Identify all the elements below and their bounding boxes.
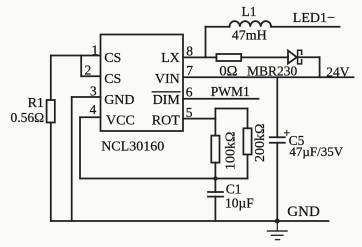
svg-text:8: 8 [186, 43, 193, 58]
wire pin2 CS horizontal [81, 75, 100, 77]
svg-text:MBR230: MBR230 [247, 64, 298, 79]
svg-text:DIM: DIM [153, 93, 181, 108]
svg-text:3: 3 [90, 84, 97, 99]
wire top rail left of L1 [206, 26, 230, 28]
wire 0 ohm to diode anode [241, 56, 288, 58]
svg-text:NCL30160: NCL30160 [101, 140, 164, 155]
svg-text:C1: C1 [226, 182, 242, 197]
svg-text:ROT: ROT [152, 113, 180, 128]
capacitor C5 plates [270, 136, 285, 138]
svg-text:4: 4 [89, 102, 96, 117]
svg-text:2: 2 [84, 63, 91, 78]
svg-text:47µF/35V: 47µF/35V [289, 144, 343, 159]
wire R1 bottom to ground rail [50, 123, 52, 222]
junction VCC node dot [213, 176, 217, 180]
resistor R2 100k body [211, 136, 219, 163]
svg-text:CS: CS [104, 51, 121, 66]
diode D1 MBR230 schottky bar [298, 50, 302, 64]
svg-text:VCC: VCC [106, 113, 135, 128]
wire pin6 DIM stub PWM1 [183, 98, 259, 100]
svg-text:L1: L1 [242, 4, 257, 19]
svg-text:0Ω: 0Ω [219, 63, 237, 79]
svg-text:5: 5 [186, 105, 193, 120]
wire 200k bottom vertical [247, 155, 249, 179]
svg-text:100kΩ: 100kΩ [223, 132, 238, 170]
wire pin7 VIN rail to 24V [183, 76, 354, 78]
capacitor C1 plates [208, 191, 223, 193]
svg-text:GND: GND [104, 93, 134, 108]
diode D1 MBR230 triangle [288, 51, 297, 64]
wire 100k top vertical [214, 109, 216, 136]
wire C5 bottom lead [276, 143, 278, 221]
wire pin5 ROT stub [183, 118, 215, 120]
wire LX vertical to top rail [205, 27, 207, 58]
wire pin1 CS to node A [51, 55, 101, 57]
svg-text:10µF: 10µF [225, 195, 254, 210]
resistor R3 200k body [243, 128, 251, 154]
wire C1 bottom lead [214, 197, 216, 221]
svg-text:0.56Ω: 0.56Ω [11, 110, 45, 125]
wire diode cathode to 24V corner [298, 56, 320, 58]
resistor 0 ohm body [216, 54, 241, 61]
wire pin4 VCC vertical [79, 117, 81, 178]
svg-text:47mH: 47mH [232, 28, 267, 43]
wire pin8 LX stub [183, 56, 216, 58]
wire pin4 VCC horizontal [80, 116, 101, 118]
wire pin3 GND horizontal [72, 96, 101, 98]
svg-text:R1: R1 [28, 96, 44, 111]
wire node A vertical to R1 [50, 56, 52, 101]
svg-text:24V: 24V [326, 64, 350, 79]
wire top rail to LED1- [271, 26, 339, 28]
wire pin2 CS tie vertical [80, 56, 82, 77]
svg-text:6: 6 [186, 84, 193, 99]
svg-text:LED1−: LED1− [293, 11, 335, 26]
svg-text:VIN: VIN [155, 72, 180, 87]
inductor L1 humps [230, 21, 272, 27]
wire 24V corner vertical [319, 57, 321, 77]
svg-text:7: 7 [186, 63, 193, 78]
wire 100k bottom vertical [214, 163, 216, 179]
resistor R1 body [47, 100, 55, 123]
wire pin3 GND vertical to ground rail [71, 97, 73, 221]
wire ground rail bottom [51, 220, 329, 222]
overline DIM pin6 [152, 91, 180, 93]
svg-text:200kΩ: 200kΩ [253, 124, 268, 162]
svg-text:PWM1: PWM1 [211, 84, 250, 99]
ground symbol [276, 221, 278, 231]
svg-text:CS: CS [104, 72, 121, 87]
op-amp U1 NCL30160 IC body [101, 35, 184, 132]
wire C5 top lead [276, 77, 278, 137]
wire 200k top vertical [247, 109, 249, 129]
svg-text:GND: GND [287, 204, 320, 220]
junction ground C5 dot [275, 219, 280, 224]
wire divider top run [215, 108, 247, 110]
svg-text:LX: LX [161, 51, 180, 66]
svg-text:1: 1 [91, 43, 98, 58]
wire C1 top lead [214, 179, 216, 193]
wire VCC node horizontal run [80, 178, 248, 180]
